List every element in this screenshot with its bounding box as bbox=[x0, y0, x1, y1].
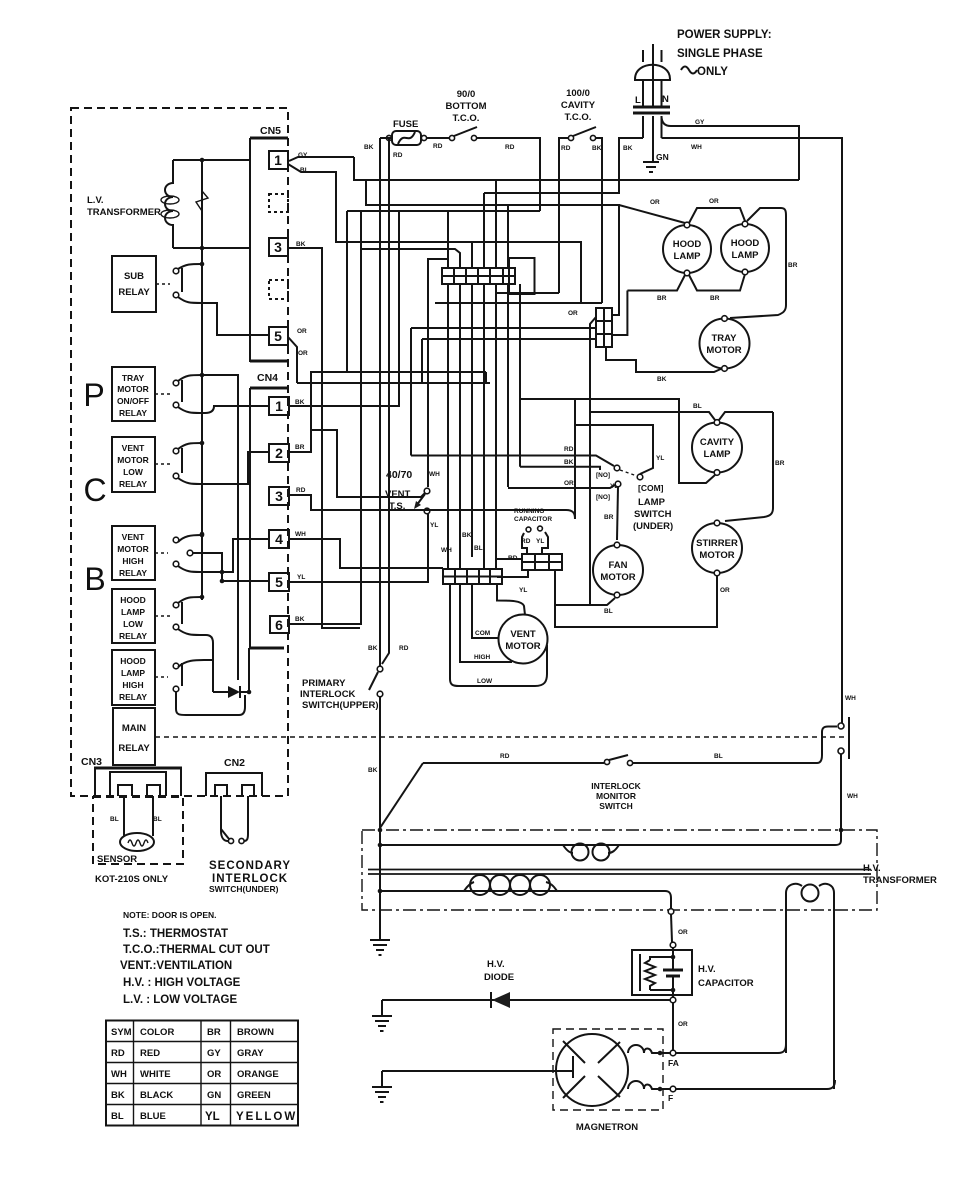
svg-text:HOOD: HOOD bbox=[673, 239, 702, 250]
svg-text:H.V. : HIGH VOLTAGE: H.V. : HIGH VOLTAGE bbox=[123, 977, 241, 989]
wire WH from plug to latch bbox=[662, 138, 843, 723]
svg-text:BR: BR bbox=[710, 295, 720, 302]
svg-text:RD: RD bbox=[521, 538, 531, 545]
svg-text:HIGH: HIGH bbox=[122, 556, 143, 566]
chassis ground 1 bbox=[370, 828, 390, 955]
svg-text:WH: WH bbox=[111, 1069, 127, 1080]
wire bus branch x238 bbox=[202, 375, 238, 680]
svg-text:LOW: LOW bbox=[477, 678, 493, 685]
svg-text:WH: WH bbox=[295, 531, 306, 538]
main bus wire y180 bbox=[354, 157, 799, 180]
svg-text:LAMP: LAMP bbox=[704, 449, 732, 460]
vent motor low relay box bbox=[112, 437, 170, 492]
svg-text:VENT.:VENTILATION: VENT.:VENTILATION bbox=[120, 960, 232, 972]
wire loop rectangle bbox=[509, 258, 535, 294]
hood lamp 1 bbox=[663, 222, 711, 276]
wire vent HIGH bbox=[460, 584, 512, 662]
main relay box bbox=[113, 708, 155, 765]
svg-text:CAVITY: CAVITY bbox=[700, 437, 735, 448]
svg-text:WHITE: WHITE bbox=[140, 1069, 171, 1080]
svg-text:FUSE: FUSE bbox=[393, 119, 418, 130]
hood lamp 2 bbox=[721, 221, 769, 275]
svg-text:VENT: VENT bbox=[122, 443, 145, 453]
magnetron V1 bbox=[553, 1029, 663, 1133]
svg-text:GN: GN bbox=[207, 1090, 221, 1101]
svg-text:4: 4 bbox=[275, 531, 283, 547]
svg-text:[NO]: [NO] bbox=[596, 472, 610, 479]
wire lamp2 to BR drop bbox=[730, 208, 798, 318]
steering diode D1 bbox=[213, 648, 251, 698]
svg-text:OR: OR bbox=[678, 1021, 688, 1028]
svg-text:SUB: SUB bbox=[124, 271, 144, 282]
wire block to tray motor bbox=[606, 347, 723, 372]
svg-text:TRAY: TRAY bbox=[712, 333, 738, 344]
svg-text:MOTOR: MOTOR bbox=[117, 544, 148, 554]
svg-text:BL: BL bbox=[693, 403, 702, 410]
svg-text:POWER SUPPLY:: POWER SUPPLY: bbox=[677, 29, 772, 41]
svg-text:[NO]: [NO] bbox=[596, 494, 610, 501]
svg-text:F: F bbox=[668, 1093, 673, 1103]
svg-text:RELAY: RELAY bbox=[118, 743, 150, 754]
lamp switch S2 bbox=[596, 465, 673, 532]
relay common bus wire bbox=[200, 160, 205, 600]
svg-text:BK: BK bbox=[592, 145, 602, 152]
svg-text:CN3: CN3 bbox=[81, 756, 102, 768]
svg-text:MOTOR: MOTOR bbox=[505, 641, 540, 652]
svg-text:OR: OR bbox=[720, 587, 730, 594]
svg-text:CAPACITOR: CAPACITOR bbox=[698, 978, 754, 989]
wire OR staircase pair bbox=[297, 382, 490, 384]
secondary interlock switch bbox=[209, 796, 291, 894]
svg-text:H.V.: H.V. bbox=[487, 959, 505, 970]
svg-text:T.S.: THERMOSTAT: T.S.: THERMOSTAT bbox=[123, 928, 228, 940]
wire CN4 pin4 WH bbox=[289, 531, 443, 568]
svg-text:HIGH: HIGH bbox=[122, 680, 143, 690]
hood lamp high relay box bbox=[112, 650, 168, 705]
wire lamp switch COM YL bbox=[575, 425, 664, 474]
svg-text:DIODE: DIODE bbox=[484, 972, 514, 983]
svg-text:H.V.: H.V. bbox=[863, 863, 881, 874]
wire secondary to HV cap OR bbox=[670, 914, 688, 948]
svg-text:5: 5 bbox=[275, 574, 283, 590]
wire BK from plug to cavity TCO bbox=[596, 138, 643, 193]
wire CN4 pin2 BR staircase bbox=[289, 372, 425, 497]
svg-text:L.V.: L.V. bbox=[87, 195, 104, 206]
svg-text:1: 1 bbox=[275, 398, 283, 414]
svg-text:BK: BK bbox=[462, 532, 472, 539]
wire cavity lamp BL feed bbox=[590, 403, 773, 420]
svg-text:BR: BR bbox=[775, 460, 785, 467]
svg-text:90/0: 90/0 bbox=[457, 89, 476, 100]
wire CN4 pin5 YL bbox=[289, 514, 428, 582]
svg-text:H.V.: H.V. bbox=[698, 964, 716, 975]
wire stirrer OR return bbox=[555, 570, 730, 627]
svg-text:3: 3 bbox=[274, 239, 282, 255]
wire lamps-return to block bbox=[612, 291, 627, 336]
connector CN2 bbox=[206, 757, 262, 796]
wire vent TS feed bbox=[311, 430, 425, 497]
wire FA to filament left bbox=[676, 1044, 786, 1053]
sensor enclosure bbox=[93, 797, 183, 885]
svg-text:LAMP: LAMP bbox=[732, 250, 760, 261]
svg-text:MOTOR: MOTOR bbox=[706, 345, 741, 356]
svg-text:COLOR: COLOR bbox=[140, 1027, 174, 1038]
svg-text:NOTE: DOOR IS OPEN.: NOTE: DOOR IS OPEN. bbox=[123, 910, 217, 920]
svg-text:BL: BL bbox=[153, 816, 162, 823]
connector CN5 bbox=[250, 125, 289, 362]
wire lamp switch BK feed bbox=[520, 284, 600, 470]
svg-text:BL: BL bbox=[604, 608, 613, 615]
wire strip risers bbox=[448, 180, 508, 268]
primary interlock switch S1 bbox=[300, 138, 409, 828]
svg-text:LAMP: LAMP bbox=[121, 607, 145, 617]
T2 core bbox=[368, 870, 871, 875]
wire CN4 pin6 BK bbox=[289, 211, 361, 624]
svg-text:SENSOR: SENSOR bbox=[97, 854, 137, 865]
wire CN5 pin3 BK bbox=[288, 241, 360, 628]
wire lamps bottom BR bbox=[627, 274, 745, 302]
svg-text:[COM]: [COM] bbox=[638, 483, 664, 493]
svg-text:RD: RD bbox=[399, 645, 409, 652]
svg-text:RD: RD bbox=[433, 143, 443, 150]
svg-text:N: N bbox=[662, 94, 669, 105]
wire strip downs to vent strip bbox=[441, 284, 508, 569]
cavity lamp bbox=[692, 420, 742, 476]
svg-text:BK: BK bbox=[657, 376, 667, 383]
svg-text:TRAY: TRAY bbox=[122, 373, 145, 383]
wire F to filament right bbox=[676, 1080, 835, 1089]
svg-text:YL: YL bbox=[430, 522, 438, 529]
svg-text:VENT: VENT bbox=[510, 629, 536, 640]
wire lamp1 feed OR bbox=[619, 199, 685, 223]
svg-text:CN2: CN2 bbox=[224, 757, 245, 769]
svg-text:2: 2 bbox=[275, 445, 283, 461]
svg-text:SWITCH: SWITCH bbox=[599, 801, 633, 811]
wire magnetron body to chassis bbox=[382, 1070, 573, 1072]
wire y249 stub bbox=[361, 249, 460, 268]
svg-text:MOTOR: MOTOR bbox=[699, 550, 734, 561]
wire CN4 pin3 RD staircase bbox=[289, 399, 575, 519]
svg-text:PRIMARY: PRIMARY bbox=[302, 678, 346, 689]
svg-text:LOW: LOW bbox=[123, 467, 144, 477]
svg-text:INTERLOCK: INTERLOCK bbox=[591, 781, 641, 791]
wire CN4 pin1 BK bbox=[289, 211, 399, 406]
terminal strip TB4 vent bbox=[443, 569, 502, 584]
interlock monitor switch S3 bbox=[423, 727, 837, 812]
wire vent LOW bbox=[450, 584, 547, 686]
H.V. diode D2 bbox=[382, 959, 670, 1008]
sub relay contacts bbox=[173, 262, 226, 335]
wire vent top feed bbox=[497, 584, 525, 615]
svg-text:SECONDARY: SECONDARY bbox=[209, 860, 291, 872]
svg-text:3: 3 bbox=[275, 488, 283, 504]
svg-text:YL: YL bbox=[297, 574, 305, 581]
wire cavity-stirrer BR bbox=[725, 412, 785, 521]
svg-text:WH: WH bbox=[847, 793, 858, 800]
wire lamp switch OR feed bbox=[508, 480, 615, 488]
terminal block TB2 bbox=[568, 308, 612, 347]
svg-text:OR: OR bbox=[650, 199, 660, 206]
wire cavity TCO left drop bbox=[559, 138, 568, 293]
svg-text:RELAY: RELAY bbox=[119, 631, 147, 641]
svg-text:RD: RD bbox=[111, 1048, 125, 1059]
T2 filament winding bbox=[786, 884, 834, 1089]
stirrer motor M2 bbox=[692, 520, 742, 576]
wire bracket over vent TS bbox=[428, 259, 449, 487]
vent high relay contacts bbox=[173, 533, 269, 584]
svg-text:FA: FA bbox=[668, 1058, 679, 1068]
wire HV cap to magnetron FA bbox=[670, 1003, 688, 1056]
svg-text:MAGNETRON: MAGNETRON bbox=[576, 1122, 638, 1133]
svg-text:WH: WH bbox=[441, 547, 452, 554]
hood low relay contacts bbox=[173, 595, 213, 692]
svg-text:RED: RED bbox=[140, 1048, 160, 1059]
svg-text:ON/OFF: ON/OFF bbox=[117, 396, 149, 406]
svg-text:T.C.O.: T.C.O. bbox=[453, 113, 480, 124]
svg-text:BL: BL bbox=[111, 1111, 124, 1122]
svg-text:BL: BL bbox=[474, 545, 483, 552]
svg-text:BK: BK bbox=[564, 459, 574, 466]
latch switch S4 bbox=[835, 695, 858, 845]
svg-text:L: L bbox=[635, 95, 641, 106]
fan motor M3 bbox=[593, 542, 643, 598]
svg-text:BR: BR bbox=[295, 444, 305, 451]
wire CN5 pin1 GY bbox=[289, 152, 354, 161]
svg-text:100/0: 100/0 bbox=[566, 88, 590, 99]
svg-text:(UNDER): (UNDER) bbox=[633, 521, 673, 532]
svg-text:OR: OR bbox=[297, 328, 307, 335]
running capacitor C1 bbox=[514, 508, 552, 554]
tray motor M1 bbox=[700, 316, 750, 372]
svg-text:GN: GN bbox=[656, 152, 669, 162]
svg-text:FAN: FAN bbox=[609, 560, 628, 571]
wire fuse feed BK bbox=[364, 138, 403, 159]
fuse F1 bbox=[386, 119, 426, 145]
svg-text:GY: GY bbox=[695, 119, 705, 126]
svg-text:P: P bbox=[83, 377, 104, 413]
wire CN5 pin1 BL bbox=[288, 164, 581, 303]
svg-text:RELAY: RELAY bbox=[119, 568, 147, 578]
vent thermostat TS1 40/70 bbox=[385, 469, 440, 529]
terminal strip TB3 running cap bbox=[496, 554, 562, 594]
svg-text:L.V. : LOW VOLTAGE: L.V. : LOW VOLTAGE bbox=[123, 994, 237, 1006]
wire lamp switch RD feed bbox=[411, 372, 614, 466]
chassis ground 3 bbox=[372, 1071, 392, 1102]
bottom TCO 90/0 bbox=[433, 89, 515, 151]
sensor bulb bbox=[110, 796, 162, 851]
svg-text:GY: GY bbox=[207, 1048, 221, 1059]
svg-text:ONLY: ONLY bbox=[697, 66, 728, 78]
svg-text:6: 6 bbox=[275, 617, 283, 633]
wire fuse to bottom TCO RD bbox=[427, 137, 449, 139]
svg-text:BLUE: BLUE bbox=[140, 1111, 166, 1122]
line filter capacitor bbox=[633, 94, 670, 161]
svg-text:BL: BL bbox=[110, 816, 119, 823]
vent motor high relay box bbox=[112, 526, 168, 580]
svg-text:VENT: VENT bbox=[122, 532, 145, 542]
svg-text:MOTOR: MOTOR bbox=[117, 384, 148, 394]
svg-text:SINGLE PHASE: SINGLE PHASE bbox=[677, 48, 763, 60]
svg-text:YL: YL bbox=[536, 538, 544, 545]
wire bus y193 bbox=[484, 192, 619, 194]
svg-text:TRANSFORMER: TRANSFORMER bbox=[863, 875, 937, 886]
svg-text:T.C.O.:THERMAL CUT OUT: T.C.O.:THERMAL CUT OUT bbox=[123, 944, 270, 956]
svg-text:WH: WH bbox=[845, 695, 856, 702]
svg-text:WH: WH bbox=[429, 471, 440, 478]
svg-text:COM: COM bbox=[475, 630, 490, 637]
wire TCO drop to block row3 bbox=[422, 339, 596, 383]
svg-text:RD: RD bbox=[564, 446, 574, 453]
svg-text:KOT-210S ONLY: KOT-210S ONLY bbox=[95, 874, 169, 885]
svg-text:SYM: SYM bbox=[111, 1027, 132, 1038]
connector CN4 bbox=[250, 372, 289, 648]
svg-text:MOTOR: MOTOR bbox=[117, 455, 148, 465]
svg-text:BK: BK bbox=[295, 616, 305, 623]
cavity TCO 100/0 bbox=[561, 88, 602, 152]
svg-text:YL: YL bbox=[205, 1111, 220, 1123]
vent motor M4 bbox=[499, 615, 548, 664]
T2 secondary winding bbox=[378, 875, 674, 914]
svg-text:BK: BK bbox=[368, 767, 378, 774]
wire drop x347 bbox=[346, 211, 348, 372]
svg-text:LAMP: LAMP bbox=[674, 251, 702, 262]
svg-text:RD: RD bbox=[500, 753, 510, 760]
door open dashed line bbox=[155, 736, 849, 738]
svg-text:OR: OR bbox=[207, 1069, 221, 1080]
svg-text:T.C.O.: T.C.O. bbox=[565, 112, 592, 123]
svg-text:LAMP: LAMP bbox=[121, 668, 145, 678]
H.V. transformer T2 bbox=[362, 830, 937, 910]
svg-text:HOOD: HOOD bbox=[731, 238, 760, 249]
svg-text:RD: RD bbox=[561, 145, 571, 152]
wire cavity lamp bottom YL bbox=[520, 399, 715, 490]
svg-text:CAVITY: CAVITY bbox=[561, 100, 596, 111]
wire fan BL return bbox=[555, 317, 615, 615]
wire riser x590 to block bbox=[590, 317, 596, 605]
svg-text:OR: OR bbox=[709, 198, 719, 205]
low-voltage section dashed enclosure bbox=[71, 108, 288, 796]
svg-text:OR: OR bbox=[678, 929, 688, 936]
svg-text:RUNNING: RUNNING bbox=[514, 508, 544, 515]
svg-text:RD: RD bbox=[296, 487, 306, 494]
L.V. transformer T1 bbox=[87, 158, 250, 251]
ground GN bbox=[643, 152, 669, 172]
svg-text:OR: OR bbox=[568, 310, 578, 317]
svg-text:RD: RD bbox=[393, 152, 403, 159]
svg-text:BK: BK bbox=[111, 1090, 125, 1101]
svg-text:BROWN: BROWN bbox=[237, 1027, 274, 1038]
svg-text:SWITCH(UPPER): SWITCH(UPPER) bbox=[302, 700, 379, 711]
hood high relay contacts bbox=[173, 660, 245, 715]
T2 primary winding bbox=[378, 843, 835, 861]
wire diagonal to chassis bbox=[380, 763, 423, 828]
terminal strip TB1 bbox=[442, 268, 515, 284]
svg-text:YELLOW: YELLOW bbox=[236, 1111, 297, 1123]
svg-text:CN5: CN5 bbox=[260, 125, 281, 137]
wire CN5 pin5 OR bbox=[225, 328, 308, 383]
svg-text:SWITCH(UNDER): SWITCH(UNDER) bbox=[209, 884, 279, 894]
svg-text:C: C bbox=[83, 472, 106, 508]
hood lamp low relay box bbox=[112, 589, 170, 643]
power supply caption bbox=[677, 29, 772, 78]
svg-text:BR: BR bbox=[604, 514, 614, 521]
wire TCO drop to block row2 bbox=[411, 328, 596, 372]
svg-text:BR: BR bbox=[788, 262, 798, 269]
svg-text:BK: BK bbox=[295, 399, 305, 406]
svg-text:B: B bbox=[84, 561, 105, 597]
sub relay box bbox=[112, 256, 170, 312]
wire bus y303 bbox=[435, 193, 602, 303]
tray motor on/off relay box bbox=[112, 367, 170, 421]
wire lamp1-lamp2 OR hump bbox=[689, 198, 745, 223]
svg-text:BK: BK bbox=[296, 241, 306, 248]
svg-text:CAPACITOR: CAPACITOR bbox=[514, 516, 552, 523]
NOTES bbox=[120, 910, 270, 1006]
svg-text:MONITOR: MONITOR bbox=[596, 791, 636, 801]
magnetron filament chokes bbox=[628, 1045, 679, 1103]
svg-text:LOW: LOW bbox=[123, 619, 144, 629]
svg-text:YL: YL bbox=[656, 455, 664, 462]
wire GY from plug to bus bbox=[662, 116, 800, 180]
svg-text:BK: BK bbox=[368, 645, 378, 652]
svg-text:HIGH: HIGH bbox=[474, 654, 491, 661]
svg-text:OR: OR bbox=[564, 480, 574, 487]
tray relay contacts bbox=[173, 373, 269, 680]
svg-text:RELAY: RELAY bbox=[119, 408, 147, 418]
svg-text:CN4: CN4 bbox=[257, 372, 278, 384]
mains plug P1 bbox=[635, 44, 670, 107]
svg-text:LAMP: LAMP bbox=[638, 497, 666, 508]
svg-text:BR: BR bbox=[657, 295, 667, 302]
svg-text:MOTOR: MOTOR bbox=[600, 572, 635, 583]
svg-text:BLACK: BLACK bbox=[140, 1090, 173, 1101]
svg-text:HOOD: HOOD bbox=[120, 656, 146, 666]
svg-text:WH: WH bbox=[691, 144, 702, 151]
wire bus y211 bbox=[347, 210, 540, 212]
svg-text:RELAY: RELAY bbox=[119, 692, 147, 702]
svg-text:MAIN: MAIN bbox=[122, 723, 146, 734]
svg-text:RELAY: RELAY bbox=[118, 287, 150, 298]
wire hood-lamp feed y205 bbox=[366, 180, 619, 315]
vent low relay contacts bbox=[173, 441, 269, 484]
svg-text:TRANSFORMER: TRANSFORMER bbox=[87, 207, 161, 218]
svg-text:HOOD: HOOD bbox=[120, 595, 146, 605]
H.V. capacitor C2 bbox=[632, 948, 754, 1003]
svg-text:1: 1 bbox=[274, 152, 282, 168]
svg-text:BK: BK bbox=[364, 144, 374, 151]
svg-text:BK: BK bbox=[623, 145, 633, 152]
svg-text:RD: RD bbox=[505, 144, 515, 151]
connector CN3 bbox=[81, 756, 182, 796]
svg-text:RELAY: RELAY bbox=[119, 479, 147, 489]
svg-text:OR: OR bbox=[298, 350, 308, 357]
svg-text:BR: BR bbox=[207, 1027, 221, 1038]
svg-text:SWITCH: SWITCH bbox=[634, 509, 672, 520]
color code table bbox=[106, 1021, 298, 1126]
svg-text:BL: BL bbox=[714, 753, 723, 760]
wire bottom TCO to corner x540 bbox=[477, 138, 540, 211]
wire vent COM bbox=[472, 584, 499, 638]
svg-text:GREEN: GREEN bbox=[237, 1090, 271, 1101]
svg-text:STIRRER: STIRRER bbox=[696, 538, 738, 549]
wire switch to fan BR bbox=[604, 487, 618, 540]
svg-text:BOTTOM: BOTTOM bbox=[446, 101, 487, 112]
svg-text:YL: YL bbox=[519, 587, 527, 594]
chassis ground 2 bbox=[372, 1000, 392, 1031]
svg-text:ORANGE: ORANGE bbox=[237, 1069, 279, 1080]
wire stub y293 bbox=[495, 292, 559, 294]
svg-text:INTERLOCK: INTERLOCK bbox=[300, 689, 356, 700]
